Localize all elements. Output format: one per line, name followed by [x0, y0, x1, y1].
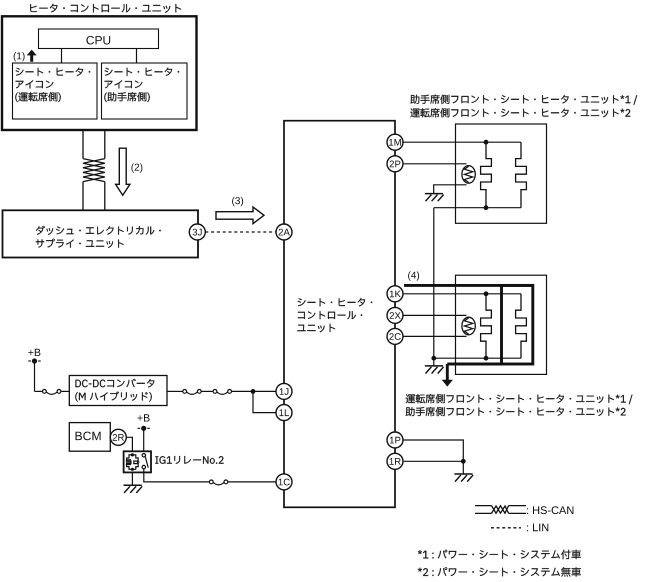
thermistor unit2 RT2 [462, 317, 475, 335]
ground unit1 thermistor [425, 193, 443, 195]
junction dot unit2 bottom [484, 356, 489, 361]
label (3) [232, 197, 243, 206]
connector 2R [110, 429, 126, 445]
thick path 4 bottom [447, 363, 501, 366]
legend HS-CAN text [527, 506, 573, 514]
label front heater unit2 l1 [406, 394, 633, 404]
label shcu l1 [298, 298, 373, 306]
heater element unit2 B [516, 294, 527, 358]
label dash supply l2 [36, 239, 124, 248]
wire to ground unit2 [433, 358, 435, 366]
wire +B down [34, 361, 36, 391]
relay IG1 No.2 box [124, 451, 151, 472]
wire [232, 390, 277, 392]
label dcdc l2 [75, 391, 151, 401]
thick box unit2 [502, 285, 533, 364]
twisted pair bus right wire [104, 130, 106, 158]
+B source 1 [28, 349, 40, 356]
wire 1K rail [403, 293, 521, 295]
heater unit2 box [456, 275, 547, 374]
inline connector pair B1 [43, 390, 47, 394]
wire +B to connector [35, 390, 43, 392]
label icon driver l3 [15, 92, 60, 102]
legend LIN dashed [491, 527, 521, 529]
label shcu l3 [297, 324, 335, 333]
seat heater control unit box [284, 121, 395, 508]
legend LIN text [527, 524, 548, 532]
arrow path4 head [442, 380, 453, 387]
wire 1R to ground [403, 460, 463, 462]
DC-DC converter box [69, 376, 167, 406]
twist braid [83, 159, 105, 182]
wire down to ground4 [462, 461, 464, 474]
wire DCDC to 1J [167, 390, 183, 392]
junction dot 1J branch [251, 389, 256, 394]
wire branch to 1L [253, 391, 276, 412]
wire 2R to relay coil [126, 437, 132, 451]
seat heater icon driver box [13, 63, 98, 119]
wire CPU to right icon [136, 49, 138, 63]
heater element unit2 A [481, 294, 492, 358]
inline connector pair C1 [209, 480, 213, 484]
ground relay coil [124, 484, 142, 486]
wire 2X to thermistor2 [403, 314, 467, 316]
label dash supply l1 [36, 226, 161, 235]
heater control unit box [2, 16, 197, 130]
label heater control unit [30, 4, 181, 13]
wire 2C to thermistor2 bottom [403, 335, 467, 337]
label (1) [14, 52, 25, 61]
label footnote1 [418, 550, 581, 559]
label IG1 relay [155, 456, 223, 464]
arrow step3 right [216, 207, 264, 224]
ground unit2 [425, 365, 443, 367]
heater unit1 box [456, 124, 547, 223]
connectors on control unit right edge [387, 134, 403, 150]
wire 2P to thermistor [403, 163, 467, 165]
ground 1P 1R [454, 473, 472, 475]
wire to 1C [228, 481, 276, 483]
inline connector pair D1 [183, 390, 187, 394]
label front heater unit2 l2 [406, 407, 626, 416]
junction dot heater return [431, 356, 436, 361]
relay switch [142, 454, 145, 457]
junction dot unit1 bottom [484, 205, 489, 210]
label (2) [131, 163, 142, 172]
junction dot unit2 top [484, 291, 489, 296]
wire 1P to ground [403, 440, 463, 461]
inline connector pair D2 [213, 390, 217, 394]
+B source 2 [138, 414, 150, 421]
label (4) [408, 271, 419, 280]
wire unit1 bottom rail [434, 207, 521, 209]
wire +B2 to relay switch [143, 428, 145, 451]
connectors on control unit left edge [276, 224, 292, 240]
BCM box [69, 423, 110, 452]
wire unit2 bottom rail [434, 357, 521, 359]
connector 3J [189, 224, 205, 240]
junction dot 1P1R [461, 459, 466, 464]
twisted pair bus left wire [82, 130, 84, 158]
label front heater unit1 l2 [410, 108, 630, 117]
thick path 4 top [404, 284, 533, 287]
label icon pass l2 [105, 80, 143, 88]
label icon pass l1 [105, 68, 180, 76]
wire switch to 1C [144, 469, 210, 482]
wire 1M rail [403, 141, 521, 143]
LIN dashed wire 3J-2A [205, 231, 276, 233]
label icon driver l2 [16, 80, 54, 88]
seat heater icon passenger box [102, 63, 188, 119]
label shcu l2 [298, 311, 362, 319]
label icon pass l3 [104, 92, 149, 102]
wire CPU to left icon [61, 49, 63, 63]
thermistor unit1 RT1 [462, 166, 475, 184]
heater element unit1 A [481, 142, 492, 208]
thick path 4 down [446, 364, 449, 380]
junction dot unit1 top [484, 140, 489, 145]
CPU U1 [39, 29, 159, 49]
legend HS-CAN twisted pair symbol [475, 505, 492, 507]
arrow step1 up [27, 50, 37, 62]
wire to DCDC [61, 390, 69, 392]
heater element unit1 B [516, 142, 527, 208]
label footnote2 [418, 567, 581, 577]
wire thermistor1 to ground [434, 185, 467, 194]
wire coil to ground [131, 472, 133, 485]
wire heater return vertical [433, 208, 435, 359]
relay coil [131, 453, 134, 456]
wire [201, 390, 213, 392]
label dcdc l1 [76, 379, 155, 388]
dash electrical supply unit box [3, 210, 199, 257]
label front heater unit1 l1 [410, 95, 637, 105]
label icon driver l1 [16, 68, 91, 76]
arrow step2 down [116, 148, 130, 195]
